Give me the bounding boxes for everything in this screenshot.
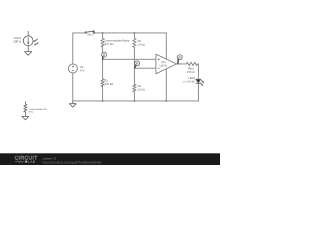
svg-text:LM741: LM741	[160, 64, 168, 67]
svg-text:LAB: LAB	[28, 160, 36, 164]
svg-text:100 lx: 100 lx	[13, 39, 22, 43]
svg-text:270 Ω: 270 Ω	[187, 70, 196, 74]
svg-text:9 V: 9 V	[80, 69, 85, 73]
svg-text:9 kΩ: 9 kΩ	[29, 111, 34, 114]
svg-text:Luminosidade Alta: Luminosidade Alta	[29, 108, 48, 111]
svg-text:LTL-307EE: LTL-307EE	[183, 81, 196, 84]
svg-text:470 kΩ: 470 kΩ	[105, 43, 114, 46]
svg-text:http://circuitlab.com/cpdf/7lu: http://circuitlab.com/cpdf/7lumdhxy42kvb…	[42, 161, 101, 165]
svg-text:Luminosidade Baixa: Luminosidade Baixa	[105, 39, 130, 42]
svg-text:SW1: SW1	[87, 33, 93, 36]
svg-text:100 kΩ: 100 kΩ	[105, 83, 114, 86]
svg-text:10 kΩ: 10 kΩ	[138, 43, 145, 46]
svg-text:10 kΩ: 10 kΩ	[138, 89, 145, 92]
